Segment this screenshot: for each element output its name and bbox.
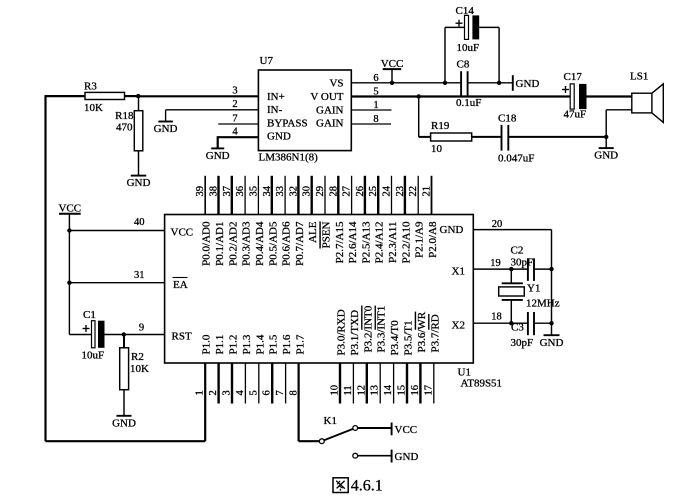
svg-text:GND: GND (206, 150, 230, 162)
svg-text:15: 15 (397, 385, 408, 396)
svg-text:GND: GND (112, 417, 136, 429)
caption figure 4.6.1 (333, 478, 383, 495)
MCU bottom pin 14 wire (393, 363, 395, 404)
resistor R18 470 (115, 110, 143, 151)
wire R3 left lead (45, 95, 86, 97)
power VCC left (58, 202, 81, 230)
svg-text:34: 34 (262, 185, 273, 196)
wire C2 right lead (534, 268, 552, 270)
svg-text:2: 2 (232, 99, 237, 110)
wire VS after C8 (468, 82, 513, 84)
svg-text:GND: GND (516, 78, 540, 90)
MCU bottom pin 17 wire (433, 363, 435, 404)
svg-text:PSEN: PSEN (321, 221, 333, 248)
wire GAIN pin8 stub (351, 123, 391, 125)
svg-text:P1.3: P1.3 (241, 334, 253, 354)
svg-text:BYPASS: BYPASS (267, 118, 308, 130)
MCU top pin 25 wire (377, 176, 379, 215)
svg-text:30pF: 30pF (511, 337, 534, 349)
svg-text:R18: R18 (115, 110, 134, 122)
svg-text:P3.1/TXD: P3.1/TXD (349, 310, 361, 356)
svg-text:10uF: 10uF (82, 349, 105, 361)
crystal Y1 12MHz (499, 269, 560, 323)
svg-text:47uF: 47uF (564, 109, 587, 121)
svg-text:V OUT: V OUT (310, 91, 343, 103)
node VCC/pin40 junction (67, 228, 71, 232)
wire R2 top stub (123, 335, 125, 348)
wire R2 bottom lead (123, 390, 125, 416)
MCU bottom pin 6 wire (271, 363, 273, 404)
wire V OUT pin5 long run (351, 95, 570, 97)
switch K1 (319, 415, 357, 444)
svg-text:10K: 10K (84, 102, 103, 114)
svg-text:P3.7/RD: P3.7/RD (429, 314, 441, 352)
svg-text:P1.7: P1.7 (295, 334, 307, 354)
resistor R3 10K (84, 80, 125, 114)
svg-text:P2.2/A10: P2.2/A10 (400, 221, 412, 263)
wire C1 to RST (105, 334, 165, 336)
wire switch to VCC (358, 427, 392, 429)
svg-text:7: 7 (232, 113, 237, 124)
svg-text:10: 10 (330, 385, 341, 396)
svg-text:7: 7 (275, 390, 286, 395)
svg-text:25: 25 (368, 186, 379, 197)
svg-text:P0.3/AD3: P0.3/AD3 (241, 221, 253, 266)
node X1 junction (509, 267, 513, 271)
svg-text:12: 12 (356, 385, 367, 396)
node speaker/ground junction (604, 135, 608, 139)
MCU bottom pin 16 wire (419, 363, 421, 404)
wire C14 right vertical (498, 27, 500, 83)
svg-text:VCC: VCC (58, 202, 81, 214)
wire R3 right lead to junction (125, 95, 140, 97)
MCU bottom pin 15 wire (406, 363, 408, 404)
net label EA with overline (173, 278, 188, 291)
svg-text:C14: C14 (456, 5, 475, 17)
wire lower contact to GND (358, 455, 392, 457)
svg-text:20: 20 (492, 219, 503, 230)
ground sideways at VS end (513, 75, 540, 91)
MCU top pin 38 wire (217, 176, 219, 215)
svg-text:35: 35 (248, 186, 259, 197)
wire to C1 (69, 334, 91, 336)
svg-text:C18: C18 (498, 112, 517, 124)
wire speaker bottom horizontal (606, 109, 632, 111)
MCU top pin 36 wire (244, 176, 246, 215)
node C3 right junction (549, 321, 553, 325)
capacitor C17 47uF polarized (562, 71, 587, 121)
capacitor C14 10uF polarized (456, 5, 480, 54)
svg-text:27: 27 (342, 186, 353, 197)
wire VCC to pin40 (69, 230, 164, 232)
MCU top pin 24 wire (391, 176, 393, 215)
svg-text:P2.7/A15: P2.7/A15 (334, 221, 346, 263)
svg-text:P3.6/WR: P3.6/WR (416, 311, 428, 352)
wire GAIN pin1 stub (351, 109, 391, 111)
svg-text:EA: EA (173, 279, 188, 291)
svg-text:4: 4 (235, 390, 246, 396)
wire IN- pin2 (166, 109, 259, 111)
svg-text:U7: U7 (260, 55, 274, 67)
svg-text:37: 37 (222, 186, 233, 197)
svg-text:VS: VS (329, 77, 343, 89)
wire VCC vertical down (68, 231, 70, 335)
wire BYPASS pin7 stub (218, 123, 258, 125)
svg-text:GAIN: GAIN (316, 104, 344, 116)
MCU top pin 30 wire (311, 176, 313, 215)
svg-text:29: 29 (315, 186, 326, 197)
capacitor C2 30pF (511, 245, 535, 281)
ground sideways at switch (392, 450, 419, 464)
node C14 left junction (443, 81, 447, 85)
MCU top pin 22 wire (417, 176, 419, 215)
svg-text:P1.2: P1.2 (228, 335, 240, 355)
svg-text:RST: RST (172, 331, 192, 343)
node V OUT split junction (417, 94, 421, 98)
svg-text:0.1uF: 0.1uF (456, 97, 481, 109)
svg-text:IN-: IN- (267, 104, 283, 116)
svg-text:24: 24 (382, 185, 393, 196)
ground below crystal network (544, 334, 560, 336)
svg-text:10K: 10K (130, 363, 149, 375)
svg-text:P3.2/INT0: P3.2/INT0 (362, 305, 374, 352)
op-amp U7 LM386N1(8) (258, 55, 351, 164)
svg-text:12MHz: 12MHz (526, 297, 560, 309)
MCU top pin 34 wire (271, 176, 273, 215)
svg-text:4.6.1: 4.6.1 (351, 478, 383, 495)
switch lower contact (353, 453, 358, 458)
svg-text:ALE: ALE (307, 221, 319, 243)
wire pin20 GND horizontal (473, 229, 551, 231)
MCU top pin 28 wire (337, 176, 339, 215)
svg-text:P2.3/A11: P2.3/A11 (387, 222, 399, 263)
svg-text:1: 1 (195, 390, 206, 395)
svg-text:P1.4: P1.4 (254, 334, 266, 354)
svg-text:32: 32 (288, 186, 299, 197)
ground below R2 (117, 415, 132, 417)
svg-text:P1.0: P1.0 (201, 334, 213, 354)
MCU bottom pin 5 wire (258, 363, 260, 404)
MCU top pin 23 wire (404, 176, 406, 215)
wire down to R19 (418, 97, 420, 137)
svg-text:26: 26 (355, 186, 366, 197)
svg-text:GND: GND (540, 337, 564, 349)
svg-text:31: 31 (134, 270, 145, 281)
svg-text:3: 3 (232, 85, 237, 96)
svg-text:P0.0/AD0: P0.0/AD0 (201, 221, 213, 266)
wire VS pin6 (351, 82, 461, 84)
wire R18 top stub (138, 96, 140, 111)
MCU top pin 21 wire (431, 176, 433, 215)
svg-text:470: 470 (116, 122, 133, 134)
microcontroller U1 AT89S51 (165, 215, 502, 390)
wire right vertical to ground (551, 230, 553, 336)
svg-text:P1.5: P1.5 (268, 334, 280, 354)
wire R18 bottom lead (138, 151, 140, 176)
svg-text:C17: C17 (564, 71, 583, 83)
wire X2 pin18 (473, 322, 528, 324)
svg-text:14: 14 (383, 384, 394, 395)
svg-text:K1: K1 (324, 415, 337, 427)
svg-text:2: 2 (208, 390, 219, 395)
svg-text:AT89S51: AT89S51 (461, 377, 503, 389)
capacitor C1 10uF polarized (82, 309, 105, 361)
svg-text:16: 16 (410, 385, 421, 396)
svg-text:21: 21 (422, 186, 433, 197)
svg-text:28: 28 (328, 186, 339, 197)
wire C14 top left (445, 26, 465, 28)
svg-text:36: 36 (235, 186, 246, 197)
svg-text:P0.5/AD5: P0.5/AD5 (267, 221, 279, 266)
capacitor C8 0.1uF (456, 59, 481, 110)
svg-text:GND: GND (127, 177, 151, 189)
MCU bottom pin 10 wire (339, 363, 341, 404)
svg-text:GND: GND (395, 451, 419, 463)
svg-text:10uF: 10uF (457, 42, 480, 54)
MCU top pin 29 wire (324, 176, 326, 215)
svg-text:C2: C2 (511, 245, 524, 257)
svg-text:GND: GND (267, 131, 291, 143)
svg-text:Y1: Y1 (527, 283, 540, 295)
svg-text:C1: C1 (83, 309, 96, 321)
svg-text:P2.5/A13: P2.5/A13 (360, 221, 372, 263)
MCU bottom pin 7 wire (285, 363, 287, 404)
wire C18 to speaker junction (508, 136, 606, 138)
ground near speaker (599, 147, 614, 149)
MCU top pin 37 wire (231, 176, 233, 215)
svg-text:P3.5/T1: P3.5/T1 (403, 320, 415, 355)
svg-text:GND: GND (440, 224, 464, 236)
wire U7 GND stub down (217, 136, 219, 148)
MCU top pin 26 wire (364, 176, 366, 215)
svg-text:P0.4/AD4: P0.4/AD4 (254, 221, 266, 266)
svg-text:P0.6/AD6: P0.6/AD6 (281, 221, 293, 266)
wire pin1 down to loop (204, 363, 206, 441)
svg-text:LM386N1(8): LM386N1(8) (259, 152, 319, 164)
wire EA pin31 (69, 282, 164, 284)
ground at IN- (158, 121, 173, 123)
svg-text:13: 13 (370, 385, 381, 396)
svg-text:P0.2/AD2: P0.2/AD2 (227, 221, 239, 265)
ground at U7 pin4 (211, 147, 224, 149)
svg-text:38: 38 (209, 186, 220, 197)
wire ground stub at junction (605, 137, 607, 148)
power VCC at VS (381, 58, 404, 83)
wire X1 pin19 (473, 268, 528, 270)
svg-text:R2: R2 (131, 351, 144, 363)
capacitor C3 30pF (511, 312, 535, 349)
speaker LS1 (630, 71, 663, 123)
wire IN+ pin3 (138, 95, 258, 97)
svg-text:IN+: IN+ (267, 91, 285, 103)
svg-text:10: 10 (431, 143, 443, 155)
wire P1.7 to switch (299, 440, 320, 442)
svg-text:4: 4 (232, 127, 238, 138)
MCU bottom pin 2 wire (217, 363, 219, 404)
wire R19 to C18 (472, 136, 502, 138)
svg-text:5: 5 (248, 390, 259, 395)
wire left loop vertical (44, 96, 46, 441)
MCU bottom pin 11 wire (352, 363, 354, 404)
resistor R19 10 (431, 120, 472, 155)
svg-text:VCC: VCC (381, 58, 404, 70)
MCU top pin 32 wire (297, 176, 299, 215)
svg-text:C8: C8 (457, 59, 470, 71)
MCU bottom pin 3 wire (231, 363, 233, 404)
svg-text:P1.1: P1.1 (214, 335, 226, 355)
wire C3 right lead (534, 322, 552, 324)
svg-text:P0.1/AD1: P0.1/AD1 (214, 222, 226, 266)
MCU bottom pin 4 wire (244, 363, 246, 404)
svg-text:23: 23 (395, 186, 406, 197)
wire speaker bottom vertical (605, 110, 607, 137)
node C14 right junction (497, 81, 501, 85)
svg-text:P2.1/A9: P2.1/A9 (414, 221, 426, 258)
svg-text:R19: R19 (431, 120, 450, 132)
wire IN- ground stub (165, 110, 167, 122)
svg-text:X2: X2 (452, 320, 465, 332)
svg-text:30: 30 (302, 186, 313, 197)
svg-text:GAIN: GAIN (316, 118, 344, 130)
wire V OUT after C17 to speaker (587, 95, 632, 97)
svg-text:9: 9 (139, 323, 144, 334)
svg-text:3: 3 (222, 390, 233, 395)
ground below R18 (131, 175, 147, 177)
svg-text:P3.0/RXD: P3.0/RXD (336, 309, 348, 355)
power VCC sideways at switch (392, 423, 418, 437)
svg-text:39: 39 (195, 186, 206, 197)
wire R19 left lead (419, 136, 431, 138)
svg-text:C3: C3 (511, 322, 524, 334)
MCU top pin 33 wire (284, 176, 286, 215)
svg-text:R3: R3 (84, 80, 97, 92)
svg-text:6: 6 (262, 390, 273, 395)
svg-text:33: 33 (275, 186, 286, 197)
svg-text:VCC: VCC (171, 227, 194, 239)
wire left loop bottom horizontal (46, 440, 206, 442)
svg-text:11: 11 (343, 385, 354, 395)
MCU top pin 35 wire (257, 176, 259, 215)
svg-text:40: 40 (134, 217, 145, 228)
svg-text:X1: X1 (452, 266, 465, 278)
svg-text:P1.6: P1.6 (281, 334, 293, 354)
wire P1.7 down (298, 363, 300, 441)
svg-text:P3.3/INT1: P3.3/INT1 (376, 306, 388, 353)
wire C14 left vertical (444, 27, 446, 83)
svg-text:VCC: VCC (395, 424, 418, 436)
svg-text:GND: GND (154, 123, 178, 135)
svg-text:P3.4/T0: P3.4/T0 (389, 320, 401, 356)
svg-text:30pF: 30pF (511, 256, 534, 268)
svg-text:18: 18 (491, 312, 502, 323)
svg-text:0.047uF: 0.047uF (498, 153, 534, 165)
node RST/R2 junction (122, 332, 126, 336)
capacitor C18 0.047uF (498, 112, 534, 164)
MCU top pin 39 wire (204, 176, 206, 215)
svg-text:P0.7/AD7: P0.7/AD7 (294, 221, 306, 266)
wire C14 top right (479, 26, 499, 28)
node X2 junction (509, 321, 513, 325)
node R3/R18 junction (136, 94, 140, 98)
node EA junction (67, 281, 71, 285)
MCU bottom pin 13 wire (379, 363, 381, 404)
MCU top pin 27 wire (351, 176, 353, 215)
resistor R2 10K (120, 348, 149, 390)
MCU bottom pin 12 wire (366, 363, 368, 404)
wire U7 GND pin4 (218, 136, 259, 138)
svg-text:P2.6/A14: P2.6/A14 (347, 221, 359, 263)
svg-text:GND: GND (594, 150, 618, 162)
svg-text:P2.4/A12: P2.4/A12 (374, 222, 386, 264)
svg-text:P2.0/A8: P2.0/A8 (427, 221, 439, 258)
svg-text:22: 22 (408, 186, 419, 197)
node C2 right junction (549, 267, 553, 271)
svg-text:19: 19 (490, 258, 501, 269)
node VCC/VS junction (390, 81, 394, 85)
svg-text:17: 17 (423, 385, 434, 396)
svg-text:LS1: LS1 (630, 71, 648, 83)
